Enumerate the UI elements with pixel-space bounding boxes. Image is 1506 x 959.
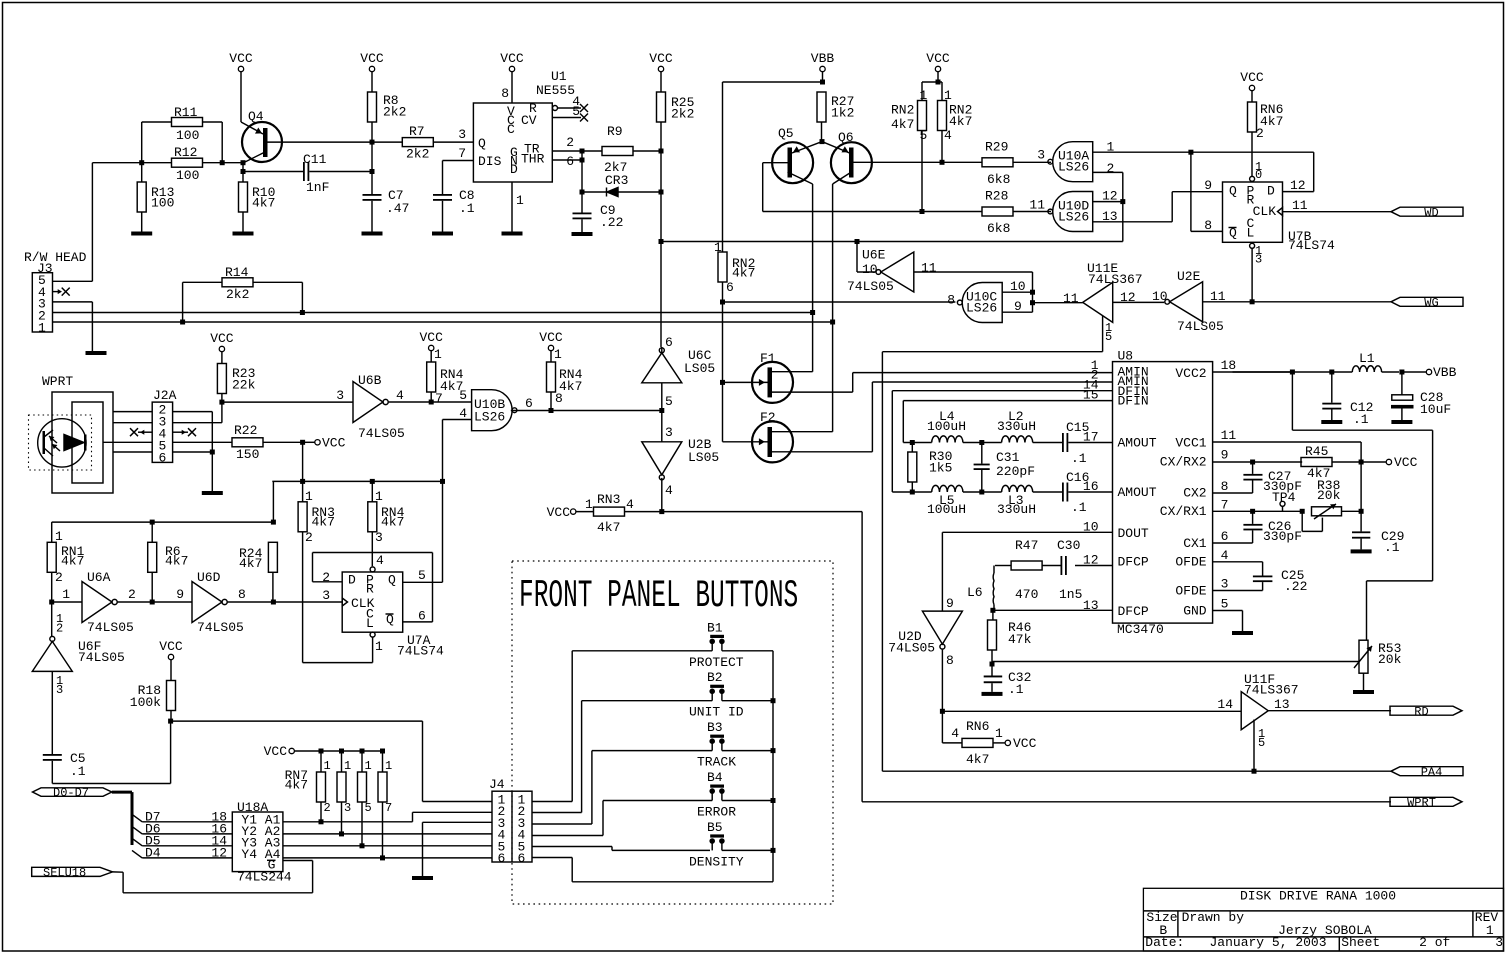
U1 pin 2 wire xyxy=(552,135,582,151)
svg-text:2 of: 2 of xyxy=(1419,935,1450,950)
svg-text:6: 6 xyxy=(525,396,533,411)
svg-text:VCC: VCC xyxy=(360,51,384,66)
power VCC symbol (RN2 pair) xyxy=(926,51,950,82)
U11E pin 15 wire xyxy=(882,316,1112,352)
svg-text:8: 8 xyxy=(947,293,955,308)
node Q5/Q6 emitters xyxy=(820,139,825,144)
svg-text:6: 6 xyxy=(665,335,673,350)
net flag WPRT xyxy=(1390,796,1462,810)
ground (J3 pin 3) xyxy=(86,351,107,355)
svg-text:4k7: 4k7 xyxy=(239,556,262,571)
title sheet value xyxy=(1419,935,1450,950)
net flag D0-D7 xyxy=(33,786,112,800)
switch B4 (ERROR) xyxy=(603,770,773,801)
svg-text:0: 0 xyxy=(1255,168,1262,182)
svg-text:C31: C31 xyxy=(996,450,1020,465)
svg-text:.1: .1 xyxy=(1384,540,1400,555)
node THR xyxy=(580,151,585,192)
svg-text:1nF: 1nF xyxy=(306,180,329,195)
svg-text:1: 1 xyxy=(375,489,383,504)
svg-text:1: 1 xyxy=(324,759,331,773)
power VCC symbol (U1 pin 8) xyxy=(500,51,524,103)
title B xyxy=(1159,923,1167,938)
inverter U2D xyxy=(888,596,962,711)
svg-text:4: 4 xyxy=(459,406,467,421)
svg-text:74LS367: 74LS367 xyxy=(1244,683,1299,698)
power VCC symbol (R8) xyxy=(360,51,384,92)
svg-text:330uH: 330uH xyxy=(997,419,1036,434)
switch B1 (PROTECT) xyxy=(572,620,773,651)
svg-text:OFDE: OFDE xyxy=(1175,584,1206,599)
power VCC (R45) xyxy=(1386,455,1417,470)
svg-text:3: 3 xyxy=(1037,148,1045,163)
svg-text:LS26: LS26 xyxy=(474,410,505,425)
svg-text:1n5: 1n5 xyxy=(1059,587,1082,602)
ground (C12) xyxy=(1321,420,1342,424)
switch B2 (UNIT ID) xyxy=(582,670,773,701)
node RN4-8 xyxy=(549,408,554,413)
transistor Q4 xyxy=(241,109,372,163)
svg-text:1: 1 xyxy=(38,320,46,335)
svg-text:CX1: CX1 xyxy=(1183,536,1207,551)
svg-text:74LS05: 74LS05 xyxy=(358,426,405,441)
svg-text:11: 11 xyxy=(1221,428,1237,443)
node U10C-9/U11E out xyxy=(1030,300,1035,305)
U1 pin 5 no-connect xyxy=(552,104,588,122)
node TR/R9 xyxy=(580,149,585,154)
U10D pin 12 wire xyxy=(1093,189,1123,204)
wire to R53 xyxy=(992,662,1359,665)
U10A pin 2 wire xyxy=(1093,161,1123,202)
ground (C32) xyxy=(982,692,1003,696)
svg-text:100: 100 xyxy=(176,168,199,183)
svg-text:R12: R12 xyxy=(174,145,197,160)
svg-text:L6: L6 xyxy=(967,585,983,600)
svg-text:VCC: VCC xyxy=(1394,455,1418,470)
connector J3 xyxy=(32,273,52,336)
nand gate U10C xyxy=(947,283,1002,323)
node R38 left xyxy=(1300,509,1305,514)
capacitor C25 xyxy=(1213,562,1308,594)
node CR3/R25 line xyxy=(659,190,664,195)
svg-text:150: 150 xyxy=(236,447,259,462)
node U10C-10 xyxy=(1030,290,1035,295)
resistor RN7 (5) xyxy=(358,751,372,846)
wire D6 xyxy=(142,821,232,836)
wire filter top row xyxy=(903,442,931,444)
net flag WD xyxy=(1391,206,1463,220)
wire J4-3 to B3 xyxy=(532,751,592,824)
U7B pin 12 label xyxy=(1290,178,1306,193)
svg-text:RN3: RN3 xyxy=(597,492,620,507)
wire to J4 pin 1 xyxy=(171,721,492,801)
svg-text:UNIT ID: UNIT ID xyxy=(689,705,744,720)
svg-text:J4: J4 xyxy=(489,777,505,792)
label U7B xyxy=(1288,229,1335,253)
svg-text:WPRT: WPRT xyxy=(1407,796,1436,810)
U10D pin 13 wire xyxy=(1093,192,1223,224)
wire CX/RX1 pin7 xyxy=(1213,510,1303,512)
svg-text:6: 6 xyxy=(518,851,526,866)
svg-text:3: 3 xyxy=(1221,577,1229,592)
node C31 top xyxy=(979,440,984,445)
wire GND pin5 xyxy=(1213,611,1243,632)
svg-text:B5: B5 xyxy=(707,820,723,835)
svg-text:74LS74: 74LS74 xyxy=(397,644,444,659)
svg-text:5: 5 xyxy=(1221,597,1229,612)
svg-text:NE555: NE555 xyxy=(536,83,575,98)
U1 pin 8 label xyxy=(501,86,509,101)
WPRT inner box xyxy=(72,402,103,483)
inductor L2 xyxy=(982,409,1062,443)
resistor RN4 (1-8) xyxy=(547,347,583,411)
svg-text:.1: .1 xyxy=(1353,412,1369,427)
ground (U8 pin 5) xyxy=(1232,631,1253,635)
svg-text:D: D xyxy=(1267,184,1275,199)
capacitor C7 xyxy=(363,188,410,232)
U10C pin 9 wire xyxy=(1002,292,1032,314)
label R/W HEAD xyxy=(24,250,87,265)
node C27 top xyxy=(1250,460,1255,465)
wire R11/R12 left riser xyxy=(141,122,143,163)
node R6 rail xyxy=(150,520,155,525)
svg-text:WG: WG xyxy=(1424,296,1438,310)
svg-text:OFDE: OFDE xyxy=(1175,555,1206,570)
inverter U2B xyxy=(642,411,719,512)
svg-text:MC3470: MC3470 xyxy=(1117,622,1164,637)
svg-text:B3: B3 xyxy=(707,720,723,735)
svg-text:4: 4 xyxy=(396,388,404,403)
svg-text:2: 2 xyxy=(56,622,63,636)
svg-text:R47: R47 xyxy=(1015,538,1038,553)
node RN2-5/R28 line xyxy=(920,209,925,214)
inverter U6B xyxy=(336,373,405,441)
svg-text:Q5: Q5 xyxy=(778,126,794,141)
svg-text:74LS367: 74LS367 xyxy=(1088,272,1143,287)
node CR3/C9 xyxy=(580,190,585,195)
svg-text:R28: R28 xyxy=(985,189,1008,204)
node RN7 rail 4 xyxy=(380,749,385,754)
label UNIT ID xyxy=(689,705,744,720)
ground (U1 pin 1) xyxy=(502,232,523,236)
node R22/VCC/RN3 xyxy=(300,440,315,445)
svg-text:4: 4 xyxy=(944,128,952,143)
resistor RN6 (pin 2) xyxy=(1248,102,1284,176)
label PROTECT xyxy=(689,655,744,670)
wire R25/U6E line xyxy=(661,241,1123,243)
power VCC symbol (R25) xyxy=(649,51,673,92)
node R14/J3-2 bus xyxy=(300,310,305,315)
svg-text:U1: U1 xyxy=(551,69,567,84)
svg-text:330pF: 330pF xyxy=(1263,529,1302,544)
J2A row6 right wire xyxy=(173,451,213,453)
svg-text:U2E: U2E xyxy=(1177,269,1201,284)
resistor R28 xyxy=(922,189,1051,237)
node VCC2 loop xyxy=(1290,370,1295,375)
U10B pin 4 wire xyxy=(443,420,472,583)
wire Qbar to D loop xyxy=(1191,152,1314,191)
WPRT outer box xyxy=(52,392,113,493)
wire WG from RN2-6 to U10C xyxy=(723,301,956,303)
power VCC (R22) xyxy=(315,436,346,451)
svg-text:1: 1 xyxy=(920,88,928,103)
svg-text:THR: THR xyxy=(521,152,545,167)
J4 row3 gnd wire xyxy=(423,822,493,876)
switch B5 (DENSITY) xyxy=(707,820,773,851)
power VCC (RN3-1) xyxy=(547,505,594,520)
node R25/U6E line xyxy=(659,239,664,244)
wire Y3 row xyxy=(283,845,492,847)
wire PA4 line xyxy=(882,770,1391,772)
U7A pin 3 label xyxy=(322,588,330,603)
svg-text:3: 3 xyxy=(1495,935,1503,950)
node R45/VCC1 xyxy=(1359,460,1387,465)
wire J4-5 to B5 xyxy=(532,847,710,851)
wire DFCP13 xyxy=(993,609,1113,611)
node C12 xyxy=(1329,370,1334,375)
node R46/C32/R53 line xyxy=(990,662,995,667)
svg-text:100: 100 xyxy=(151,196,174,211)
label J4 xyxy=(489,777,505,792)
capacitor C11 xyxy=(243,152,372,195)
svg-text:.22: .22 xyxy=(1284,579,1307,594)
J2A row5 wire xyxy=(103,441,152,443)
svg-text:5: 5 xyxy=(572,104,580,119)
wire Y2 row xyxy=(283,833,492,835)
node Q4 emitter/R10 xyxy=(241,160,246,165)
node Q5/F1/J3-2 bus xyxy=(810,310,815,315)
node U2B-4/RN3 xyxy=(659,509,664,514)
node RN7 row 4 xyxy=(380,855,385,860)
ic U8 MC3470 xyxy=(1113,362,1213,623)
svg-text:4k7: 4k7 xyxy=(165,554,188,569)
wire supply loop to R53 xyxy=(1292,372,1432,641)
J2A row5 to R22 xyxy=(173,441,232,443)
inverter U6C xyxy=(642,335,715,411)
svg-text:2k2: 2k2 xyxy=(383,105,406,120)
svg-text:4k7: 4k7 xyxy=(597,520,620,535)
wire WG to flag xyxy=(1252,301,1391,303)
svg-text:3: 3 xyxy=(665,425,673,440)
node RN2-6/WG xyxy=(720,300,725,442)
svg-text:1: 1 xyxy=(385,759,392,773)
svg-text:3: 3 xyxy=(322,588,330,603)
op-amp U1 NE555 timer xyxy=(473,69,575,182)
svg-text:12: 12 xyxy=(211,845,227,860)
svg-text:CX2: CX2 xyxy=(1183,486,1206,501)
capacitor C16 xyxy=(1062,470,1113,515)
svg-text:L: L xyxy=(366,616,374,631)
test point TP4 xyxy=(1272,490,1296,511)
U10A pin 1 wire xyxy=(1093,140,1191,155)
J2A row3 to R23 xyxy=(173,402,222,423)
svg-text:ERROR: ERROR xyxy=(697,805,736,820)
svg-text:VCC: VCC xyxy=(547,505,571,520)
wire J3 pin 1 bus xyxy=(53,321,833,323)
svg-text:4k7: 4k7 xyxy=(732,266,755,281)
power VBB symbol xyxy=(811,51,835,82)
inverter U6F xyxy=(32,602,125,754)
resistor R30 xyxy=(908,443,953,493)
title author xyxy=(1278,923,1372,938)
title Date xyxy=(1145,935,1184,950)
svg-text:J3: J3 xyxy=(37,261,53,276)
svg-text:D4: D4 xyxy=(145,845,161,860)
svg-text:8: 8 xyxy=(238,587,246,602)
node R38/C29 xyxy=(1359,462,1364,514)
svg-text:R45: R45 xyxy=(1305,444,1328,459)
svg-text:74LS05: 74LS05 xyxy=(87,620,134,635)
svg-text:5: 5 xyxy=(1258,736,1265,750)
svg-text:LS26: LS26 xyxy=(966,301,997,316)
node RN4-7 xyxy=(429,400,434,405)
U7B pin 13 bubble xyxy=(1250,243,1263,301)
svg-text:DISK DRIVE RANA 1000: DISK DRIVE RANA 1000 xyxy=(1240,889,1396,904)
wire RN1 to U6A xyxy=(52,601,82,603)
power VCC (RN7) xyxy=(264,744,383,759)
U8 pin 2 label xyxy=(1091,368,1099,383)
bus D0-D7 trunk xyxy=(112,792,132,845)
svg-text:Sheet: Sheet xyxy=(1341,935,1380,950)
buffer U11F xyxy=(1217,672,1298,730)
svg-text:4k7: 4k7 xyxy=(252,196,275,211)
svg-text:U8: U8 xyxy=(1118,349,1134,364)
resistor RN4 (1-3) xyxy=(368,481,405,566)
svg-text:RN2: RN2 xyxy=(891,103,914,118)
node rail B5 xyxy=(771,848,776,853)
U8 pin 18 r label xyxy=(1221,358,1237,373)
node RN7 rail 2 xyxy=(339,749,344,754)
inductor L3 xyxy=(982,485,1062,517)
label J3 xyxy=(37,261,53,276)
svg-text:CV: CV xyxy=(521,113,537,128)
resistor RN4 (1-7) xyxy=(427,347,464,406)
wire R25 line down xyxy=(660,151,662,347)
node R12/R13/J3-5 xyxy=(139,160,144,165)
U1 pin 3 wire xyxy=(458,127,466,142)
svg-text:VCC: VCC xyxy=(264,744,288,759)
svg-text:10: 10 xyxy=(862,262,878,277)
svg-text:4k7: 4k7 xyxy=(891,117,914,132)
inverter U2E xyxy=(1152,269,1226,334)
ground (C8) xyxy=(432,232,453,236)
node C28 xyxy=(1399,370,1426,375)
svg-text:DFCP: DFCP xyxy=(1118,604,1149,619)
nand gate U10D xyxy=(1029,192,1092,232)
inductor L5 xyxy=(927,485,982,517)
svg-text:LS26: LS26 xyxy=(1058,210,1089,225)
resistor R6 xyxy=(148,522,189,602)
U1 pin 6 wire xyxy=(552,154,582,169)
resistor RN3 (1-4) xyxy=(585,492,662,535)
svg-text:4k7: 4k7 xyxy=(949,114,972,129)
U7A pin 4 bubble xyxy=(370,553,384,572)
U8 pin 5 r label xyxy=(1221,597,1229,612)
title Drawn by xyxy=(1182,910,1245,925)
svg-text:C30: C30 xyxy=(1057,538,1080,553)
U8 pin 1 label xyxy=(1091,358,1099,373)
label WPRT xyxy=(42,374,73,389)
U1 pin 1 wire xyxy=(512,182,524,232)
label J2A xyxy=(153,388,177,403)
svg-text:1k5: 1k5 xyxy=(929,461,952,476)
bus tap D4 xyxy=(132,850,142,858)
svg-text:Q: Q xyxy=(1229,184,1237,199)
connector J2A xyxy=(152,402,172,466)
U8 pin 3 r label xyxy=(1221,577,1229,592)
resistor R10 xyxy=(239,163,276,232)
svg-text:R22: R22 xyxy=(234,423,257,438)
J2A row6 wire xyxy=(113,451,152,453)
wire F1 emitter to AMIN1 xyxy=(853,373,1113,393)
svg-text:13: 13 xyxy=(1274,697,1290,712)
buffer U18A 74LS244 xyxy=(232,812,283,873)
svg-text:January 5, 2003: January 5, 2003 xyxy=(1210,935,1327,950)
svg-text:DIS: DIS xyxy=(478,154,502,169)
wire Q5 collector riser (F1) xyxy=(812,184,814,372)
svg-text:B1: B1 xyxy=(707,620,723,635)
wire filter bottom row xyxy=(892,491,931,493)
node R30 top xyxy=(910,440,915,445)
svg-text:.1: .1 xyxy=(1071,451,1087,466)
svg-text:Drawn by: Drawn by xyxy=(1182,910,1245,925)
U8 pin 13 label xyxy=(1083,598,1099,613)
transistor F1 xyxy=(723,351,853,403)
svg-text:5: 5 xyxy=(920,128,928,143)
J2A row3 wire xyxy=(113,422,152,424)
title date value xyxy=(1210,935,1327,950)
svg-text:4k7: 4k7 xyxy=(285,778,308,793)
label ERROR xyxy=(697,805,736,820)
wire J4-6 to loop xyxy=(532,858,773,882)
svg-text:1: 1 xyxy=(55,529,63,544)
svg-text:.1: .1 xyxy=(459,201,475,216)
svg-text:C11: C11 xyxy=(303,152,327,167)
node R11/R12 join xyxy=(220,160,243,165)
wire F2 emitter to AMIN2 xyxy=(872,382,1112,452)
svg-text:AMOUT: AMOUT xyxy=(1118,485,1157,500)
node Q6/F2/J3-1 bus xyxy=(830,320,835,325)
resistor R24 xyxy=(239,542,277,602)
svg-text:CX/RX1: CX/RX1 xyxy=(1160,504,1207,519)
resistor RN7 (2) xyxy=(317,751,331,822)
svg-text:3: 3 xyxy=(344,801,351,815)
svg-text:220pF: 220pF xyxy=(996,464,1035,479)
svg-text:3: 3 xyxy=(56,683,63,697)
svg-text:1: 1 xyxy=(305,489,313,504)
svg-text:U18A: U18A xyxy=(237,800,268,815)
resistor R38 trimmer xyxy=(1312,478,1362,519)
Q5 base L-wire xyxy=(763,163,922,212)
title sheet total xyxy=(1495,935,1503,950)
svg-text:7: 7 xyxy=(385,801,392,815)
wire D7 xyxy=(142,809,232,824)
wire R24 top link xyxy=(272,442,442,481)
wire Q6 collector riser (F2) xyxy=(832,184,834,432)
U8 pin 8 r label xyxy=(1221,479,1229,494)
svg-text:4k7: 4k7 xyxy=(559,379,582,394)
bus tap D5 xyxy=(132,838,142,846)
node RN2 pair top xyxy=(922,80,942,85)
wire R6 to U6D xyxy=(152,601,192,603)
svg-text:2: 2 xyxy=(324,801,331,815)
capacitor C8 xyxy=(433,188,475,232)
U7B pin 8 wire xyxy=(1191,152,1223,233)
U8 pin 11 r label xyxy=(1221,428,1237,443)
svg-text:TRACK: TRACK xyxy=(697,755,736,770)
U1 pin 7 wire xyxy=(443,146,474,194)
svg-text:1: 1 xyxy=(375,639,383,654)
